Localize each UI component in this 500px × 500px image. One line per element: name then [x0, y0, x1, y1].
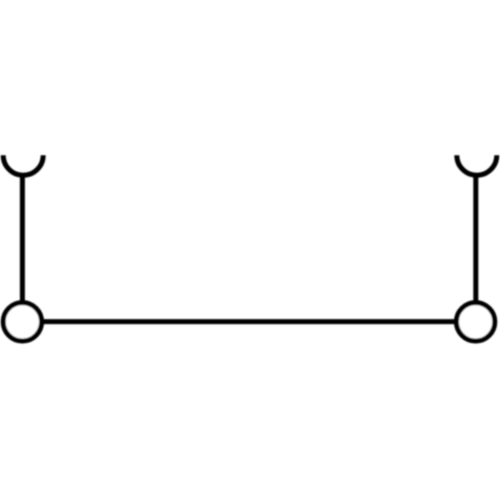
socket arc right (open top) — [457, 155, 497, 175]
wire: right vertical lead — [473, 174, 478, 322]
wire: left vertical lead — [20, 174, 25, 322]
terminal circle right — [456, 303, 494, 341]
wire: horizontal bus between terminals — [22, 319, 475, 324]
terminal circle left — [3, 303, 41, 341]
socket arc left (open top) — [3, 155, 43, 175]
